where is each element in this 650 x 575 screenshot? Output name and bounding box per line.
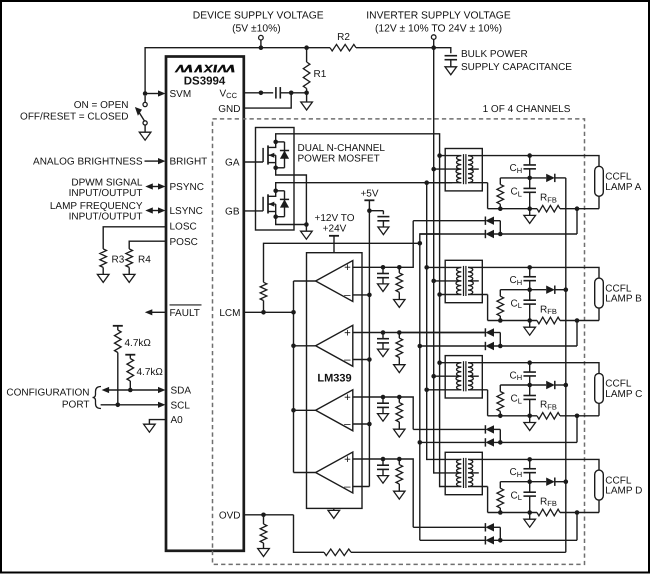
svg-text:LM339: LM339 (317, 373, 351, 385)
wire OVD row to OVP bus (351, 551, 566, 553)
junction lamp return channel A (575, 206, 580, 211)
wire lamp bottom channel C (598, 403, 600, 415)
junction CH/CL channel A (527, 176, 532, 181)
wire secondary bottom drop channel C (487, 390, 489, 416)
wire OVD to bottom row (294, 515, 325, 553)
wire Q1 source down (276, 168, 307, 225)
wire secondary top row channel D (482, 459, 599, 470)
wire comparator 1 output stub (294, 280, 316, 282)
svg-text:FAULT: FAULT (170, 308, 200, 319)
junction T3 bottom primary (424, 388, 429, 393)
mosfet gate bar (262, 197, 264, 211)
capacitor CH channel B (529, 267, 531, 276)
junction CH top channel D (527, 457, 532, 462)
svg-text:SVM: SVM (170, 89, 192, 100)
svg-text:CL: CL (511, 490, 522, 502)
svg-text:RFB: RFB (540, 496, 557, 508)
mosfet source stub (268, 162, 276, 164)
device supply terminal (259, 35, 264, 40)
junction 5V-VCC drop (259, 45, 264, 50)
wire OVP bus (565, 178, 567, 552)
junction lamp return channel B (575, 318, 580, 323)
wire comparator 2 output stub (294, 345, 316, 347)
diode LCM lower channel D (420, 539, 486, 541)
svg-text:LAMP C: LAMP C (605, 389, 642, 400)
transformer T2 secondary stubs (468, 266, 482, 268)
junction OVP bus channel B (564, 287, 569, 292)
inverter supply terminal (431, 35, 436, 40)
capacitor comp 1 + input filter (381, 265, 386, 270)
wire Q2 source down (276, 217, 307, 225)
svg-text:LAMP A: LAMP A (605, 182, 641, 193)
diode OVP channel C (546, 381, 555, 389)
svg-text:LAMP FREQUENCY: LAMP FREQUENCY (50, 201, 143, 212)
mosfet body arrow stub (268, 203, 276, 205)
wire secondary top row channel B (482, 267, 599, 278)
svg-text:ON = OPEN: ON = OPEN (74, 100, 129, 111)
wire upper diode to lower row channel A (499, 221, 501, 234)
svg-text:CL: CL (511, 298, 522, 310)
mosfet drain stub (268, 142, 276, 148)
bulk supply capacitor (445, 55, 458, 57)
wire LCM bus down (419, 243, 421, 540)
junction divider bottom channel A (498, 206, 503, 211)
junction +5V at comp 3 (367, 422, 372, 427)
resistor 4.7k pullup SDA (125, 354, 135, 356)
resistor RFB channel D (537, 509, 560, 516)
resistor LCM pullup (263, 301, 265, 313)
wire comparator 2 + input (353, 332, 400, 334)
ground CL channel C (529, 416, 531, 423)
ground LM339 (333, 508, 335, 510)
ground CL channel B (529, 321, 531, 328)
capacitor CH channel C (529, 363, 531, 372)
junction divider bottom channel B (498, 318, 503, 323)
svg-text:POWER MOSFET: POWER MOSFET (298, 154, 380, 165)
transformer T2 core (463, 266, 465, 296)
junction OVP bus channel C (564, 383, 569, 388)
junction R1 bottom (304, 91, 309, 96)
junction divider bottom channel C (498, 414, 503, 419)
junction LCM bus channel C (418, 440, 423, 445)
junction CH top channel C (527, 360, 532, 365)
mosfet channel bar (267, 194, 269, 213)
wire secondary bottom drop channel B (487, 295, 489, 321)
wire top supply row (145, 48, 330, 94)
junction GB bus split (424, 180, 429, 185)
junction T2 bottom primary (437, 292, 442, 297)
wire comparator 2 - input to +5V (353, 359, 370, 361)
wire SCL (101, 404, 160, 406)
junction CH top channel A (527, 153, 532, 158)
transformer T4 channel D (445, 452, 482, 494)
wire lamp bottom channel A (598, 196, 600, 208)
op-amp comparator 2 (316, 325, 353, 366)
svg-text:+24V: +24V (323, 224, 347, 235)
diode OVP channel D (546, 478, 555, 486)
junction T2 top primary (424, 265, 429, 270)
svg-text:CL: CL (511, 394, 522, 406)
svg-text:R2: R2 (337, 32, 350, 43)
transformer T4 secondary stubs (468, 458, 482, 460)
mosfet gate bar (262, 148, 264, 162)
diode feedback upper channel D (413, 526, 485, 528)
switch S1 on/off (144, 96, 146, 103)
junction lamp return channel C (575, 414, 580, 419)
brace configuration port (93, 387, 102, 409)
junction OVD resistor (261, 513, 266, 518)
svg-text:CH: CH (510, 163, 523, 175)
wire comparator 4 - input to +5V (353, 486, 370, 488)
wire comp3 + jog to channel C diode (399, 397, 413, 429)
comparator U2 LM339 box (307, 253, 363, 509)
junction drain (273, 140, 278, 145)
wire comp1 + jog to channel A diode (399, 221, 413, 268)
svg-text:CH: CH (510, 467, 523, 479)
transformer T2 channel B (445, 260, 482, 302)
diode OVP channel B (546, 286, 555, 294)
wire +V bus (433, 48, 435, 474)
transformer T4 core (463, 458, 465, 488)
capacitor CL channel C (529, 385, 531, 396)
diode OVP channel A (546, 174, 555, 182)
junction +5V at comp 2 (367, 357, 372, 362)
svg-text:POSC: POSC (170, 237, 198, 248)
junction CL bottom channel D (527, 510, 532, 515)
ground VCC net (306, 93, 308, 102)
op-amp comparator 3 (316, 390, 353, 431)
junction +5V cap branch (367, 208, 372, 213)
transformer T3 secondary stubs (468, 362, 482, 364)
wire GB bus (426, 183, 428, 460)
svg-text:4.7kΩ: 4.7kΩ (137, 367, 164, 378)
junction diodes channel B (498, 344, 503, 349)
transformer T3 channel C (445, 356, 482, 398)
ground CL channel A (529, 209, 531, 216)
svg-text:GB: GB (225, 207, 240, 218)
capacitor CH channel D (529, 459, 531, 468)
wire upper diode to lower row channel B (499, 333, 501, 347)
svg-text:+: + (344, 327, 351, 339)
wire gate (244, 210, 263, 212)
wire comparator 4 + input (353, 458, 400, 460)
wire secondary bottom drop channel D (487, 487, 489, 513)
wire comp2 + row continues (420, 332, 486, 334)
svg-text:LAMP B: LAMP B (605, 294, 642, 305)
svg-text:A0: A0 (171, 415, 184, 426)
transformer T1 secondary stubs (468, 155, 482, 157)
wire lamp return drop channel C (576, 416, 578, 443)
diode LCM lower channel A (420, 233, 486, 235)
capacitor comp 2 + input filter (381, 330, 386, 335)
wire GND pin (244, 93, 291, 108)
svg-text:BRIGHT: BRIGHT (170, 157, 208, 168)
svg-text:–: – (344, 418, 351, 430)
diode feedback upper channel C (413, 428, 485, 430)
junction T3 top primary (437, 360, 442, 365)
junction CH/CL channel D (527, 479, 532, 484)
svg-text:+: + (344, 392, 351, 404)
diode LCM lower channel C (420, 441, 486, 443)
svg-text:BULK POWER: BULK POWER (461, 49, 528, 60)
transformer T3 primary stubs (440, 362, 462, 364)
resistor R4 (126, 249, 133, 268)
svg-text:(5V ±10%): (5V ±10%) (232, 23, 281, 34)
svg-text:CONFIGURATION: CONFIGURATION (6, 388, 89, 399)
transformer T4 primary stubs (427, 458, 462, 460)
wire Q2 drain to GB wire (276, 183, 453, 191)
resistor divider channel C (499, 385, 501, 392)
body diode (276, 141, 285, 143)
wire A0 to ground (149, 420, 166, 425)
resistor OVD pulldown (263, 515, 265, 524)
svg-text:ANALOG BRIGHTNESS: ANALOG BRIGHTNESS (33, 157, 143, 168)
wire sense row channel A (488, 208, 537, 210)
resistor R1 (304, 45, 309, 50)
wire SVM (143, 91, 148, 96)
lamp CCFL B (595, 278, 604, 308)
junction sources (304, 222, 309, 227)
svg-text:INPUT/OUTPUT: INPUT/OUTPUT (69, 188, 143, 199)
svg-text:OFF/RESET = CLOSED: OFF/RESET = CLOSED (20, 111, 128, 122)
IC U1 DS3994 box (166, 57, 244, 551)
wire comparator 3 + input (353, 396, 400, 398)
dual mosfet package box (256, 128, 295, 231)
ground R4 (123, 274, 135, 282)
wire comp4 + jog to channel D diode (399, 459, 413, 527)
svg-text:(12V ± 10% TO 24V ± 10%): (12V ± 10% TO 24V ± 10%) (375, 23, 502, 34)
wire to bulk capacitance (434, 48, 451, 54)
wire comparator 3 - input to +5V (353, 423, 370, 425)
junction CL bottom channel B (527, 318, 532, 323)
junction LCM bus channel B (418, 344, 423, 349)
resistor RFB channel A (537, 205, 560, 212)
junction divider bottom channel D (498, 510, 503, 515)
junction T2 center tap (431, 279, 436, 284)
svg-text:GND: GND (218, 104, 240, 115)
wire SDA bidirectional (108, 389, 160, 391)
wire secondary top row channel C (482, 363, 599, 374)
svg-text:4.7kΩ: 4.7kΩ (125, 338, 152, 349)
wire mid row channel A (500, 177, 546, 179)
junction OVP bus channel D (564, 479, 569, 484)
capacitor comp 4 + input filter (381, 457, 386, 462)
junction CL bottom channel A (527, 206, 532, 211)
junction GND riser (289, 91, 294, 96)
wire gate (244, 161, 263, 163)
ground A0 (144, 424, 156, 432)
resistor R3 (100, 249, 107, 268)
capacitor CL channel A (529, 178, 531, 189)
diode LCM lower channel B (420, 345, 486, 347)
capacitor comp 3 + input filter (381, 395, 386, 400)
svg-text:DEVICE SUPPLY VOLTAGE: DEVICE SUPPLY VOLTAGE (193, 11, 324, 22)
lamp CCFL C (595, 373, 604, 403)
junction source (273, 166, 278, 171)
mosfet source stub (268, 211, 276, 213)
junction output bus LCM (291, 310, 296, 315)
wire sense row channel D (488, 512, 537, 514)
junction CH/CL channel C (527, 383, 532, 388)
svg-text:R1: R1 (314, 69, 327, 80)
mosfet channel bar (267, 145, 269, 164)
wire lamp return drop channel B (576, 321, 578, 347)
svg-text:R4: R4 (138, 255, 151, 266)
svg-text:GA: GA (225, 158, 240, 169)
svg-text:DUAL N-CHANNEL: DUAL N-CHANNEL (298, 143, 386, 154)
junction LCM bus (418, 241, 423, 246)
wire LCM (244, 311, 294, 313)
resistor comp 2 + input (397, 330, 402, 335)
transformer T1 primary stubs (440, 155, 462, 157)
body diode (276, 190, 285, 192)
svg-text:SCL: SCL (171, 400, 191, 411)
wire LCM pullup to bus (264, 243, 420, 282)
junction output bus comp3 (291, 408, 296, 413)
svg-text:LAMP D: LAMP D (605, 486, 642, 497)
junction drain (273, 189, 278, 194)
svg-text:SUPPLY CAPACITANCE: SUPPLY CAPACITANCE (461, 62, 572, 73)
svg-text:LCM: LCM (219, 308, 240, 319)
svg-text:RFB: RFB (540, 400, 557, 412)
svg-text:–: – (344, 354, 351, 366)
svg-text:CH: CH (510, 370, 523, 382)
mosfet drain stub (268, 191, 276, 197)
wire comparator 3 output stub (294, 409, 316, 411)
svg-text:–: – (344, 481, 351, 493)
wire OVD (244, 514, 294, 516)
diode feedback upper channel A (413, 220, 485, 222)
svg-text:1 OF 4 CHANNELS: 1 OF 4 CHANNELS (483, 104, 571, 115)
wire VCC (244, 92, 273, 94)
lamp CCFL D (595, 470, 604, 500)
junction diodes channel D (498, 538, 503, 543)
resistor RFB channel C (537, 413, 560, 420)
capacitor +5V decoupling (369, 210, 383, 212)
diode feedback upper channel B (399, 332, 485, 334)
wire upper diode to lower row channel C (499, 429, 501, 442)
ground +5V cap (378, 227, 389, 235)
wire comparator output bus (293, 281, 295, 473)
ground CL channel D (529, 513, 531, 520)
wire Q1 drain to GA bus (276, 134, 440, 487)
junction T1 center tap (431, 167, 436, 172)
wire POSC to R4 (129, 241, 166, 249)
ground switch (144, 125, 146, 132)
wire upper diode to lower row channel D (499, 527, 501, 540)
junction T3 center tap (431, 374, 436, 379)
svg-text:CH: CH (510, 275, 523, 287)
lamp CCFL A (595, 166, 604, 196)
wire secondary top row channel A (482, 156, 599, 167)
transformer T1 core (463, 154, 465, 184)
junction CL bottom channel C (527, 414, 532, 419)
wire LCM bus up to channel A (420, 234, 440, 243)
wire comparator 1 + input (353, 266, 400, 268)
resistor RFB channel B (537, 317, 560, 324)
svg-text:+12V TO: +12V TO (315, 213, 355, 224)
wire LOSC to R3 (103, 227, 166, 249)
svg-text:SDA: SDA (171, 386, 192, 397)
wire lamp return drop channel D (576, 513, 578, 541)
junction inverter supply (431, 45, 436, 50)
mosfet body arrow stub (268, 154, 276, 156)
ground mosfet sources (305, 225, 307, 232)
wire comparator 4 output stub (294, 472, 316, 474)
resistor divider channel A (499, 178, 501, 185)
svg-text:RFB: RFB (540, 304, 557, 316)
resistor divider channel B (499, 290, 501, 297)
capacitor CL channel D (529, 482, 531, 493)
wire sense row channel B (488, 320, 537, 322)
wire lamp bottom channel B (598, 308, 600, 320)
junction T1 top primary (437, 153, 442, 158)
transformer T3 core (463, 361, 465, 391)
op-amp comparator 4 (316, 452, 353, 493)
resistor 4.7k pullup SCL (113, 325, 123, 327)
resistor divider channel D (499, 482, 501, 489)
ground OVD resistor (258, 549, 270, 557)
wire sense row channel C (488, 415, 537, 417)
svg-text:PSYNC: PSYNC (170, 182, 204, 193)
svg-text:RFB: RFB (540, 193, 557, 205)
wire mid row channel C (500, 384, 546, 386)
wire mid row channel B (500, 289, 546, 291)
ground bulk cap (445, 67, 457, 75)
junction CH/CL channel B (527, 287, 532, 292)
wire secondary bottom drop channel A (487, 183, 489, 209)
resistor comp 1 + input (397, 265, 402, 270)
svg-text:INPUT/OUTPUT: INPUT/OUTPUT (69, 212, 143, 223)
junction output bus comp2 (291, 344, 296, 349)
resistor comp 4 + input (397, 457, 402, 462)
junction lamp return channel D (575, 510, 580, 515)
svg-text:OVD: OVD (219, 510, 241, 521)
resistor OVD series (324, 549, 351, 556)
ground R3 (97, 274, 109, 282)
svg-text:INVERTER SUPPLY VOLTAGE: INVERTER SUPPLY VOLTAGE (366, 11, 511, 22)
logo MAXIM (174, 65, 234, 73)
wire lamp bottom channel D (598, 500, 600, 512)
resistor comp 3 + input (397, 395, 402, 400)
svg-text:+: + (344, 262, 351, 274)
junction source (273, 214, 278, 219)
svg-text:R3: R3 (112, 255, 125, 266)
wire comp2 + to channel B diode (399, 332, 420, 334)
svg-text:DS3994: DS3994 (184, 76, 226, 88)
resistor R2 (330, 44, 356, 51)
wire mid row channel D (500, 481, 546, 483)
svg-text:+5V: +5V (360, 189, 378, 200)
transformer T2 primary stubs (427, 266, 462, 268)
capacitor CL channel B (529, 290, 531, 301)
junction diodes channel C (498, 440, 503, 445)
svg-text:–: – (344, 289, 351, 301)
capacitor VCC decoupling (275, 87, 277, 99)
junction LCM resistor (261, 310, 266, 315)
svg-text:+: + (344, 454, 351, 466)
svg-text:PORT: PORT (62, 400, 90, 411)
junction diodes channel A (498, 232, 503, 237)
junction +5V at comp 1 (367, 293, 372, 298)
wire FAULT output (151, 311, 167, 313)
wire comparator 1 - input to +5V (353, 294, 370, 296)
svg-text:LOSC: LOSC (170, 222, 197, 233)
capacitor CH channel A (529, 156, 531, 165)
transformer T1 channel A (445, 149, 482, 191)
svg-text:DPWM SIGNAL: DPWM SIGNAL (71, 178, 143, 189)
svg-text:CL: CL (511, 187, 522, 199)
